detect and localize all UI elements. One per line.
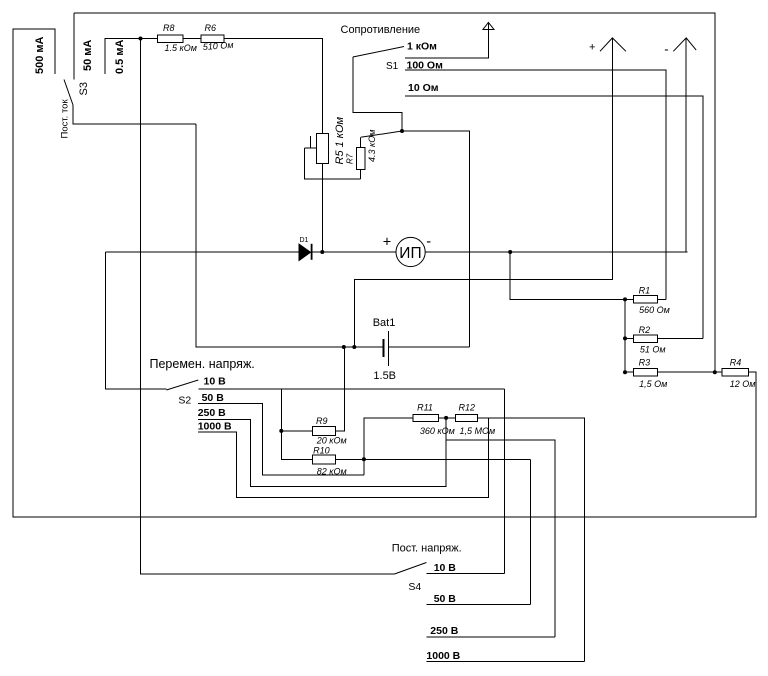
svg-text:50 мА: 50 мА bbox=[82, 40, 94, 71]
switch S4 blade bbox=[395, 563, 427, 575]
resistor R1 bbox=[634, 296, 658, 304]
node R11 R12 junction dot bbox=[444, 416, 448, 420]
svg-text:12 Ом: 12 Ом bbox=[730, 379, 756, 389]
wire S2 position 1000V line to R12 right bbox=[198, 418, 489, 498]
svg-text:0.5 мА: 0.5 мА bbox=[114, 40, 126, 74]
resistor R3 bbox=[634, 369, 658, 377]
node R10 right junction dot bbox=[362, 457, 366, 461]
wire S1 position 1 kOm to probe triangle bbox=[405, 24, 488, 58]
svg-text:S4: S4 bbox=[408, 581, 421, 593]
svg-text:250 В: 250 В bbox=[430, 625, 458, 637]
svg-text:R11: R11 bbox=[417, 403, 433, 413]
svg-text:R9: R9 bbox=[316, 416, 328, 426]
svg-text:10 В: 10 В bbox=[204, 376, 227, 388]
svg-text:R1: R1 bbox=[639, 286, 651, 296]
wire 0.5mA tap to R8 bbox=[105, 39, 158, 75]
svg-text:20 кОм: 20 кОм bbox=[316, 435, 347, 445]
node border R4 junction dot bbox=[713, 370, 717, 374]
svg-text:10 Ом: 10 Ом bbox=[408, 82, 439, 94]
battery Bat1 long plate bbox=[387, 331, 389, 366]
wire R10 node riser up to R11 left lead bbox=[364, 418, 413, 475]
wire S2 position 50V line bbox=[198, 404, 364, 476]
node battery R9 junction dot bbox=[342, 345, 346, 349]
svg-text:250 В: 250 В bbox=[198, 407, 226, 419]
wire meter output to minus probe line bbox=[425, 251, 687, 253]
node R9 left junction dot bbox=[279, 429, 283, 433]
wire 500mA tap / left border / bottom bus / up to R4 right lead bbox=[13, 29, 756, 517]
switch S1 blade bbox=[353, 47, 404, 58]
svg-text:-: - bbox=[426, 234, 431, 250]
probe plus arrow bbox=[600, 38, 626, 51]
svg-text:Пост. ток: Пост. ток bbox=[60, 99, 71, 139]
wire minus probe shaft down to meter output line bbox=[685, 38, 687, 252]
wire S2 position 10V line to S4 10V riser bbox=[198, 388, 504, 390]
diode D1 bbox=[299, 244, 313, 261]
wire S4 10V line bbox=[426, 573, 504, 575]
node A junction dot bbox=[139, 37, 143, 41]
wire R6 to R5 top bbox=[224, 39, 323, 134]
svg-text:51 Ом: 51 Ом bbox=[640, 344, 666, 354]
svg-text:R10: R10 bbox=[313, 446, 330, 456]
wire S4 50V line bbox=[426, 604, 530, 606]
wire R3 left lead bbox=[625, 371, 634, 373]
svg-text:R5 1 кОм: R5 1 кОм bbox=[334, 116, 346, 164]
wire R2 right lead to 10 Om riser bbox=[658, 337, 704, 339]
wire R7 top lead bbox=[360, 137, 362, 147]
wire R10 right lead to S4 50V riser bbox=[336, 458, 531, 460]
wire 50mA tap bbox=[73, 13, 75, 80]
wire S2 common riser and feed bbox=[106, 252, 167, 389]
probe minus arrow bbox=[673, 38, 696, 51]
svg-text:D1: D1 bbox=[300, 237, 309, 244]
wire S4 50V riser bbox=[529, 459, 531, 604]
svg-text:1000 В: 1000 В bbox=[426, 650, 460, 662]
node R1 left junction dot bbox=[623, 297, 627, 301]
wire battery left feed bbox=[196, 124, 384, 347]
svg-text:560 Ом: 560 Ом bbox=[639, 305, 670, 315]
svg-text:1.5 кОм: 1.5 кОм bbox=[165, 43, 197, 53]
svg-text:1000 В: 1000 В bbox=[198, 420, 232, 432]
wire meter output node down to R1 left bus bbox=[510, 252, 625, 299]
svg-text:510 Ом: 510 Ом bbox=[202, 40, 233, 52]
wire S3 common to battery feed corner bbox=[73, 105, 196, 124]
resistor R4 bbox=[722, 369, 748, 377]
battery Bat1 short plate bbox=[383, 339, 385, 357]
svg-text:R3: R3 bbox=[639, 357, 651, 367]
resistor R5 body bbox=[316, 133, 328, 163]
wire R2 left lead bbox=[625, 337, 634, 339]
wire top bus from 50mA tap to right border down to R3/R4 node bbox=[74, 13, 715, 372]
wire R9 right lead up to battery node bbox=[336, 347, 345, 431]
wire plus probe shaft down and left to battery plus node bbox=[354, 38, 612, 347]
wire S4 250V line bbox=[426, 636, 554, 638]
wire diode anode line from S2 riser to diode bbox=[106, 251, 300, 253]
svg-text:S3: S3 bbox=[78, 82, 90, 95]
svg-text:500 мА: 500 мА bbox=[34, 36, 46, 74]
wire R9 left lead bbox=[281, 430, 312, 432]
probe terminal triangle for ohm calibration bbox=[483, 22, 494, 29]
svg-text:Bat1: Bat1 bbox=[373, 317, 396, 329]
svg-text:100 Ом: 100 Ом bbox=[407, 59, 444, 71]
svg-text:R2: R2 bbox=[639, 325, 651, 335]
svg-text:1,5 Ом: 1,5 Ом bbox=[639, 379, 667, 389]
switch S2 blade bbox=[166, 380, 198, 390]
resistor R10 bbox=[313, 455, 336, 464]
svg-text:10 В: 10 В bbox=[434, 562, 457, 574]
wire 10V node down to R9 left and R10 left bbox=[281, 389, 312, 459]
wire R3 right to R4 left with border node bbox=[658, 371, 723, 373]
wire S4 1000V line bbox=[426, 661, 584, 663]
node R2 left junction dot bbox=[623, 336, 627, 340]
svg-text:S2: S2 bbox=[178, 395, 191, 407]
wire S1 position 100 Om down to R1 right bbox=[405, 70, 666, 299]
svg-text:1.5В: 1.5В bbox=[373, 370, 396, 382]
wire R1 right lead to 100 Om riser bbox=[658, 298, 667, 300]
wire R11 right to R12 left bbox=[439, 417, 456, 419]
svg-text:50 В: 50 В bbox=[434, 593, 457, 605]
switch S3 blade bbox=[64, 80, 73, 106]
resistor R2 bbox=[634, 335, 658, 343]
svg-text:50 В: 50 В bbox=[202, 392, 225, 404]
svg-text:R7: R7 bbox=[346, 153, 355, 164]
svg-text:Сопротивление: Сопротивление bbox=[341, 24, 421, 36]
wire node B to battery plus riser bbox=[402, 131, 470, 347]
resistor R9 bbox=[313, 426, 336, 435]
wire main feed from node A down to S4 common bbox=[141, 39, 395, 575]
svg-text:R4: R4 bbox=[730, 357, 742, 367]
svg-text:S1: S1 bbox=[386, 61, 399, 72]
svg-text:R6: R6 bbox=[205, 23, 217, 33]
wire diode cathode to meter bbox=[312, 251, 396, 253]
svg-text:4.3 кОм: 4.3 кОм bbox=[367, 130, 377, 162]
svg-text:360 кОм: 360 кОм bbox=[420, 426, 455, 436]
resistor R7 body bbox=[357, 147, 365, 169]
svg-text:82 кОм: 82 кОм bbox=[317, 467, 347, 477]
node diode-R5 junction dot bbox=[320, 250, 324, 254]
wire R7 top diagonal to node B bbox=[361, 131, 402, 137]
meter IP circle bbox=[396, 237, 425, 266]
wire S1 position 10 Om down to R2 right bbox=[405, 96, 703, 338]
node battery probe junction dot bbox=[352, 345, 356, 349]
wire S2 position 250V line to R11 R12 node bbox=[198, 418, 446, 486]
wire S4 10V riser bbox=[504, 389, 506, 574]
svg-text:1 кОм: 1 кОм bbox=[407, 41, 437, 53]
svg-text:Пост. напряж.: Пост. напряж. bbox=[392, 543, 462, 555]
node R3 left junction dot bbox=[623, 370, 627, 374]
wire left bus R1 R2 R3 bbox=[624, 299, 626, 372]
svg-text:+: + bbox=[589, 42, 595, 54]
wire R1 left lead bbox=[625, 298, 634, 300]
resistor R8 bbox=[158, 35, 184, 42]
svg-text:R8: R8 bbox=[163, 23, 175, 33]
wire R5 bottom to diode junction bbox=[322, 164, 324, 252]
svg-text:ИП: ИП bbox=[399, 245, 421, 262]
svg-text:Перемен. напряж.: Перемен. напряж. bbox=[150, 357, 255, 371]
wire battery plus to riser bbox=[388, 346, 469, 348]
node B junction dot bbox=[400, 129, 404, 133]
svg-text:+: + bbox=[383, 235, 391, 251]
wire R12 right lead to S4 1000V riser bbox=[478, 418, 585, 662]
resistor R12 bbox=[456, 414, 478, 421]
wire R7 bottom lead bbox=[360, 169, 362, 179]
wire R11 R12 node branch to S4 250V riser bbox=[446, 440, 555, 637]
wire S1 common down to node B bbox=[353, 57, 402, 131]
resistor R11 bbox=[413, 414, 439, 421]
node meter output junction dot bbox=[508, 250, 512, 254]
svg-text:R12: R12 bbox=[459, 403, 476, 413]
wire R5 wiper loop to bottom rail and R7 bottom bbox=[310, 136, 312, 148]
svg-text:1,5 МОм: 1,5 МОм bbox=[460, 426, 496, 436]
resistor R6 bbox=[201, 35, 224, 42]
wire R8 to R6 bbox=[183, 38, 201, 40]
svg-text:-: - bbox=[664, 42, 668, 57]
